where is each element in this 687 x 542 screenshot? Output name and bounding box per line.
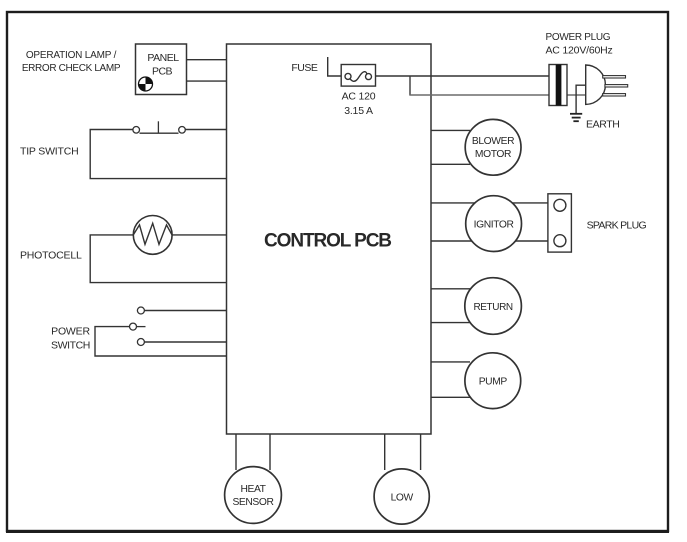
tip switch S1 <box>133 121 185 133</box>
heat sensor <box>225 467 282 524</box>
wire tip switch right <box>185 129 227 131</box>
svg-text:PUMP: PUMP <box>479 377 508 388</box>
ground earth symbol <box>570 114 582 121</box>
svg-text:CONTROL PCB: CONTROL PCB <box>264 231 391 252</box>
photocell PH1 <box>133 216 172 255</box>
svg-text:TIP SWITCH: TIP SWITCH <box>20 146 78 158</box>
svg-text:OPERATION LAMP /: OPERATION LAMP / <box>26 50 117 61</box>
wire low right <box>420 434 422 470</box>
wire photocell loop <box>90 235 227 283</box>
label POWER PLUG AC 120V/60Hz <box>546 32 613 57</box>
ignitor <box>466 196 522 252</box>
wire ignitor top <box>431 202 548 204</box>
wire fuse stub <box>328 57 342 76</box>
return <box>465 278 522 335</box>
wire heat sensor left <box>235 434 237 470</box>
svg-text:RETURN: RETURN <box>473 302 512 313</box>
svg-text:AC 120: AC 120 <box>342 91 376 103</box>
label POWER SWITCH <box>51 326 90 352</box>
svg-text:PHOTOCELL: PHOTOCELL <box>20 250 82 262</box>
svg-text:LOW: LOW <box>391 492 414 503</box>
wire tip switch loop <box>90 130 227 179</box>
svg-text:MOTOR: MOTOR <box>475 149 511 160</box>
svg-text:IGNITOR: IGNITOR <box>474 220 514 231</box>
wire panel PCB to control PCB upper <box>187 59 228 61</box>
power plug connector <box>549 65 567 106</box>
wire fuse to plug line <box>376 75 549 77</box>
label OPERATION LAMP / ERROR CHECK LAMP <box>22 50 121 74</box>
svg-text:SENSOR: SENSOR <box>232 497 273 508</box>
panel PCB <box>136 44 187 95</box>
wire photocell right <box>172 234 227 236</box>
svg-text:SPARK PLUG: SPARK PLUG <box>587 219 647 231</box>
control PCB <box>227 44 432 434</box>
wire pump top <box>431 361 470 363</box>
low <box>374 469 429 524</box>
wire return top <box>431 288 470 290</box>
value label AC 120 3.15 A <box>342 91 376 118</box>
spark plug <box>548 194 572 252</box>
svg-text:SWITCH: SWITCH <box>51 340 90 352</box>
wire power switch common <box>95 327 227 356</box>
svg-text:EARTH: EARTH <box>586 118 619 130</box>
blower motor M1 <box>465 119 521 175</box>
wire power switch bottom contact <box>144 341 227 343</box>
pump <box>465 353 521 409</box>
svg-text:PANEL: PANEL <box>147 52 179 64</box>
svg-text:POWER PLUG: POWER PLUG <box>546 32 611 43</box>
svg-text:HEAT: HEAT <box>240 484 266 495</box>
wire power switch top <box>144 310 227 312</box>
wire fuse to plug neutral <box>409 76 411 95</box>
wire panel PCB to control PCB lower <box>187 80 228 82</box>
power plug P1 <box>586 65 628 104</box>
wire blower motor bottom <box>431 163 470 165</box>
wire heat sensor right <box>269 434 271 470</box>
svg-text:ERROR CHECK LAMP: ERROR CHECK LAMP <box>22 63 121 74</box>
wire pump bottom <box>431 396 470 398</box>
svg-text:BLOWER: BLOWER <box>472 136 514 147</box>
svg-text:POWER: POWER <box>51 326 90 338</box>
svg-text:AC 120V/60Hz: AC 120V/60Hz <box>546 45 613 57</box>
svg-text:3.15 A: 3.15 A <box>344 105 373 117</box>
wire low left <box>384 434 386 470</box>
wire earth tap <box>576 85 586 113</box>
wire ignitor bottom <box>431 240 548 242</box>
svg-text:PCB: PCB <box>152 66 173 78</box>
power switch S2 <box>130 307 146 346</box>
wire return bottom <box>431 322 470 324</box>
registration mark icon on panel PCB <box>139 77 153 91</box>
svg-text:FUSE: FUSE <box>291 62 318 74</box>
wire blower motor top <box>431 129 470 131</box>
fuse F1 <box>341 65 375 87</box>
